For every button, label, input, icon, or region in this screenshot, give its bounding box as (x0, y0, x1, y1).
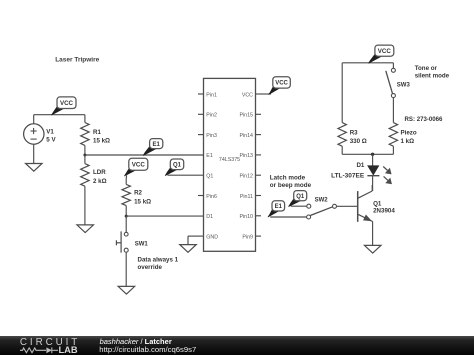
svg-text:Pin6: Pin6 (206, 194, 217, 200)
svg-text:330 Ω: 330 Ω (350, 138, 367, 145)
svg-text:Latch mode: Latch mode (270, 175, 306, 182)
svg-text:LAB: LAB (59, 345, 78, 355)
svg-text:2 kΩ: 2 kΩ (93, 178, 107, 185)
svg-text:VCC: VCC (378, 48, 392, 55)
svg-text:R2: R2 (134, 190, 142, 197)
svg-text:R1: R1 (93, 129, 101, 136)
svg-text:E1: E1 (275, 204, 283, 210)
svg-text:Pin2: Pin2 (206, 113, 217, 119)
svg-text:VCC: VCC (132, 161, 146, 168)
svg-text:VCC: VCC (60, 100, 74, 107)
svg-text:silent mode: silent mode (415, 73, 450, 80)
svg-text:Pin3: Pin3 (206, 133, 217, 139)
svg-text:VCC: VCC (242, 92, 253, 98)
svg-text:Tone or: Tone or (415, 65, 438, 72)
svg-text:Q1: Q1 (373, 200, 382, 207)
svg-text:override: override (138, 264, 163, 271)
svg-text:V1: V1 (46, 129, 54, 136)
svg-text:Pin9: Pin9 (242, 234, 253, 240)
svg-text:Q1: Q1 (296, 194, 305, 200)
svg-text:D1: D1 (206, 214, 213, 220)
svg-text:SW2: SW2 (315, 198, 329, 204)
svg-text:E1: E1 (153, 142, 161, 148)
svg-text:Pin13: Pin13 (239, 153, 253, 159)
svg-text:D1: D1 (356, 162, 364, 169)
svg-text:GND: GND (206, 234, 218, 240)
svg-text:Piezo: Piezo (401, 129, 417, 136)
svg-text:5 V: 5 V (46, 136, 56, 143)
svg-text:1 kΩ: 1 kΩ (401, 138, 415, 145)
svg-text:LTL-307EE: LTL-307EE (331, 172, 365, 179)
svg-text:Pin11: Pin11 (240, 194, 253, 200)
svg-text:Q1: Q1 (173, 163, 182, 169)
svg-text:Q1: Q1 (206, 174, 213, 180)
svg-text:15 kΩ: 15 kΩ (134, 198, 151, 205)
svg-text:SW3: SW3 (397, 82, 411, 88)
svg-text:Data always 1: Data always 1 (138, 257, 179, 264)
svg-text:2N3904: 2N3904 (373, 208, 395, 215)
svg-text:15 kΩ: 15 kΩ (93, 137, 110, 144)
svg-text:SW1: SW1 (135, 241, 149, 247)
svg-text:74LS375: 74LS375 (219, 157, 240, 163)
svg-text:Pin15: Pin15 (239, 113, 253, 119)
svg-text:Pin10: Pin10 (239, 214, 253, 220)
svg-text:Laser Tripwire: Laser Tripwire (55, 56, 99, 63)
svg-text:or beep mode: or beep mode (270, 182, 312, 189)
svg-text:Pin1: Pin1 (206, 92, 217, 98)
svg-text:Pin12: Pin12 (239, 174, 253, 180)
svg-text:VCC: VCC (275, 81, 288, 87)
svg-text:LDR: LDR (93, 169, 106, 176)
svg-text:Pin14: Pin14 (239, 133, 253, 139)
svg-text:R3: R3 (350, 129, 358, 136)
svg-text:RS: 273-0066: RS: 273-0066 (405, 116, 444, 123)
svg-text:E1: E1 (206, 153, 213, 159)
